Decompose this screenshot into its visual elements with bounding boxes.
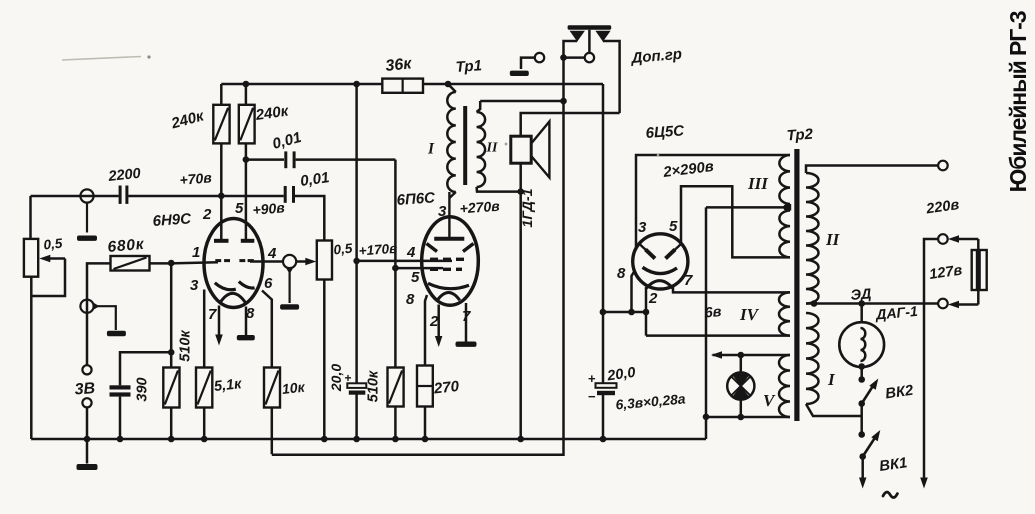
wire jack right contact to speaker bbox=[603, 41, 620, 113]
wire heater pin2 down bbox=[645, 289, 648, 336]
svg-text:680к: 680к bbox=[107, 236, 146, 256]
resistor 10к (cathode R2 / feedback) bbox=[262, 291, 272, 368]
op-amp: tube 6Н9С envelope bbox=[204, 219, 263, 308]
node rail junctions bbox=[84, 436, 91, 443]
resistor 5,1к (cathode R1) bbox=[203, 290, 206, 368]
Тр1 primary winding I bbox=[448, 84, 456, 92]
svg-text:270: 270 bbox=[432, 378, 460, 398]
Тр1 core bbox=[463, 106, 467, 185]
svg-text:+: + bbox=[588, 371, 596, 386]
node grid pin5 junction bbox=[392, 265, 399, 272]
svg-text:10к: 10к bbox=[281, 379, 306, 397]
svg-text:510к: 510к bbox=[366, 370, 382, 402]
resistor 270 (cathode 6П6С) bbox=[425, 295, 427, 368]
shield screen circle (input lead) bbox=[80, 189, 93, 202]
resistor 240к (first) bbox=[220, 84, 223, 106]
svg-text:390: 390 bbox=[135, 377, 151, 401]
node +170в screen branch bbox=[353, 258, 360, 265]
switch ВК2 bbox=[858, 363, 865, 370]
node rail junction +170v branch bbox=[353, 81, 360, 88]
svg-text:III: III bbox=[747, 174, 769, 193]
Тр1 secondary winding II bbox=[477, 112, 486, 187]
svg-text:0,5: 0,5 bbox=[43, 236, 64, 253]
svg-text:3В: 3В bbox=[74, 380, 96, 398]
svg-text:6в: 6в bbox=[704, 304, 722, 321]
cathode arcs 6Н9С bbox=[215, 283, 236, 290]
svg-text:5: 5 bbox=[235, 200, 244, 217]
pin8 chassis bbox=[245, 307, 248, 336]
resistor 240к (second) bbox=[245, 84, 248, 106]
wire top B+ rail bbox=[221, 83, 382, 86]
wire 680k left to pickup terminal bbox=[87, 263, 111, 365]
wire II top to output node bbox=[480, 100, 563, 103]
heater arc 6П6С bbox=[437, 292, 460, 300]
wiper of 0,5 with arrow bbox=[46, 257, 65, 260]
Тр2 winding II (220в primary) bbox=[806, 173, 818, 304]
shield stem to chassis bbox=[93, 303, 99, 310]
resistor 36к bbox=[382, 79, 423, 93]
shield screen circle (pickup lead) bbox=[80, 300, 93, 313]
jack contact triangle right bbox=[595, 31, 610, 42]
node anode1 junction +70в bbox=[218, 193, 225, 200]
svg-text:3: 3 bbox=[638, 219, 647, 236]
node rail junction Tr1 primary bbox=[445, 81, 452, 88]
svg-text:20,0: 20,0 bbox=[328, 364, 344, 392]
svg-text:4: 4 bbox=[406, 244, 416, 261]
wire B+ strap bbox=[603, 311, 646, 314]
terminal 220в bbox=[938, 234, 948, 244]
svg-text:3: 3 bbox=[190, 277, 199, 294]
wire anode2 to 0,01 bbox=[246, 158, 284, 161]
svg-text:1: 1 bbox=[192, 244, 200, 261]
anode marks 6Ц5С bbox=[640, 245, 647, 252]
lamp (dial light) bbox=[740, 355, 743, 373]
Тр2 winding V (heaters/lamp) bbox=[779, 355, 790, 417]
svg-text:+270в: +270в bbox=[459, 198, 501, 217]
grid dashes rows 6П6С bbox=[430, 258, 438, 261]
resistor 680к bbox=[111, 256, 150, 271]
svg-text:I: I bbox=[427, 141, 435, 158]
terminal 3В lower bbox=[82, 398, 91, 407]
wire 2200 to pot 0,5 top with shield bbox=[31, 195, 119, 198]
pin7 heater arrow bbox=[218, 306, 221, 337]
wire 0,01 to pot 0,5 #2 bbox=[295, 196, 324, 241]
svg-text:−: − bbox=[588, 389, 596, 404]
svg-text:Тр1: Тр1 bbox=[455, 57, 482, 76]
Тр2 winding III (HV) bbox=[779, 155, 790, 204]
svg-text:7: 7 bbox=[684, 272, 693, 289]
svg-text:510к: 510к bbox=[178, 330, 194, 362]
Тр2 winding IV (6в rectifier heater) bbox=[779, 292, 790, 335]
switch ВК1 bbox=[858, 431, 865, 438]
svg-text:0,5: 0,5 bbox=[333, 241, 354, 258]
wire plate3 to HV top bbox=[636, 155, 790, 248]
pin7 chassis 6П6С bbox=[465, 303, 468, 342]
wire 10k bottom to feedback line bbox=[271, 408, 274, 455]
svg-text:8: 8 bbox=[246, 305, 255, 322]
wire I bottom to switches bbox=[806, 404, 862, 416]
heater arc 6Ц5С bbox=[646, 281, 674, 289]
wire plate5 to HV bottom bbox=[681, 186, 790, 257]
wire HV centre tap down bbox=[705, 207, 708, 439]
wire to mains cord bbox=[861, 457, 864, 480]
pin2 heater arrow 6П6С bbox=[437, 305, 440, 339]
svg-text:5,1к: 5,1к bbox=[213, 376, 243, 395]
capacitor 20,0 electrolytic (first) bbox=[347, 383, 366, 388]
svg-text:II: II bbox=[486, 141, 498, 156]
Тр2 winding I (127в boost) bbox=[806, 313, 819, 404]
svg-text:6Н9С: 6Н9С bbox=[152, 210, 193, 230]
capacitor 20,0 electrolytic (second) bbox=[596, 383, 617, 388]
svg-text:II: II bbox=[825, 230, 841, 249]
wire jack tip to output node bbox=[564, 56, 585, 59]
svg-text:36к: 36к bbox=[385, 55, 413, 75]
shield screen circle (grid lead) bbox=[283, 255, 296, 268]
grid dashes 6Н9С bbox=[215, 259, 221, 262]
svg-text:7: 7 bbox=[208, 306, 217, 323]
node rail junction to 240k R2 bbox=[243, 81, 250, 88]
wire heater pin7 to IV top bbox=[673, 285, 790, 293]
wire output vertical (feedback) bbox=[272, 41, 577, 455]
fuse link with arrows bbox=[954, 238, 979, 241]
wire pin4 grid with shield bbox=[250, 260, 283, 263]
svg-text:+90в: +90в bbox=[252, 199, 286, 218]
jack tip stem and circle bbox=[588, 30, 591, 53]
wire grid pin5 6П6С bbox=[395, 267, 443, 270]
anode bar 6П6С bbox=[448, 192, 450, 238]
speaker 1ГД-1 bbox=[511, 136, 531, 163]
potentiometer 0,5 #2 bbox=[317, 241, 332, 280]
heater arc 6Н9С bbox=[220, 293, 246, 303]
jack contact triangle left bbox=[570, 31, 585, 42]
Тр2 core bbox=[794, 149, 799, 421]
svg-text:+: + bbox=[345, 371, 352, 385]
wire pot bottom to ground rail bbox=[30, 277, 33, 439]
wire 127в tap bbox=[806, 302, 938, 305]
svg-text:5: 5 bbox=[411, 269, 420, 286]
capacitor 0,01 (second) bbox=[284, 186, 287, 203]
resistor 510к (grid leak of 6Н9С) bbox=[170, 263, 173, 368]
terminal 3В (pickup) upper bbox=[82, 365, 91, 374]
capacitor 390 bbox=[110, 385, 131, 389]
chassis ground main bbox=[86, 439, 89, 464]
svg-text:6Ц5С: 6Ц5С bbox=[645, 122, 686, 142]
wire +170в vertical bbox=[355, 84, 358, 384]
wire anode1 to 0,01 second bbox=[221, 195, 283, 198]
capacitor 0,01 (first) bbox=[284, 151, 287, 168]
beam plates 6П6С bbox=[427, 244, 438, 252]
svg-text:2: 2 bbox=[648, 290, 658, 307]
terminal 127в bbox=[938, 299, 948, 309]
wire switch link bbox=[860, 404, 863, 435]
wire grid 6П6С vertical bbox=[394, 160, 397, 368]
op-amp: tube 6П6С envelope bbox=[422, 217, 479, 306]
cathode arc 6П6С bbox=[428, 283, 469, 288]
jack sleeve circle to chassis bbox=[535, 53, 544, 62]
wiper arrow into pot 0,5 #2 bbox=[296, 260, 308, 263]
anode bar pin5 bbox=[241, 239, 255, 243]
svg-text:+170в: +170в bbox=[358, 241, 398, 259]
wire 680k right to grid pin1, junction bbox=[150, 262, 172, 265]
svg-text:V: V bbox=[763, 391, 776, 410]
anode bar pin2 bbox=[214, 239, 229, 243]
capacitor 2200 bbox=[119, 186, 122, 204]
motor ДАГ-1 bbox=[860, 304, 863, 323]
wire cathode pin8 to B+ strap bbox=[632, 271, 635, 312]
svg-text:6П6С: 6П6С bbox=[396, 189, 437, 209]
svg-text:2: 2 bbox=[202, 206, 212, 223]
wire speaker top bbox=[521, 113, 620, 136]
wire speaker bottom to rail bbox=[519, 163, 522, 439]
svg-text:8: 8 bbox=[617, 265, 626, 282]
svg-text:+70в: +70в bbox=[179, 169, 213, 188]
wire ground rail bbox=[30, 438, 33, 441]
terminal circle (line) bbox=[938, 161, 948, 171]
mains ~ symbol bbox=[883, 492, 897, 497]
wire B+ vertical bbox=[602, 84, 605, 383]
wire 0,01 to 6П6С grid drop bbox=[296, 158, 396, 161]
svg-text:Тр2: Тр2 bbox=[786, 126, 814, 145]
resistor 510к (grid leak 6П6С) bbox=[388, 368, 404, 407]
jack Доп.гр top bar bbox=[568, 25, 612, 30]
transistor: tube 6Ц5С envelope bbox=[633, 234, 688, 289]
svg-text:3: 3 bbox=[438, 203, 447, 220]
wire screen grid pin4 6П6С bbox=[357, 260, 452, 263]
svg-text:5: 5 bbox=[669, 218, 678, 235]
wire anode1 node +70в to 2200 bbox=[128, 195, 221, 198]
svg-text:4: 4 bbox=[267, 245, 277, 262]
potentiometer 0,5 (input) bbox=[29, 196, 32, 239]
svg-text:Юбилейный РГ-3: Юбилейный РГ-3 bbox=[1005, 11, 1031, 192]
svg-text:8: 8 bbox=[406, 291, 415, 308]
svg-text:6: 6 bbox=[264, 275, 273, 292]
wire II top to 220в terminal bbox=[806, 166, 938, 174]
node anode2 junction bbox=[243, 156, 250, 163]
svg-text:IV: IV bbox=[739, 305, 760, 324]
wire 220в terminal to mains cord bbox=[924, 239, 938, 479]
cathode arc 6Ц5С bbox=[643, 267, 678, 273]
